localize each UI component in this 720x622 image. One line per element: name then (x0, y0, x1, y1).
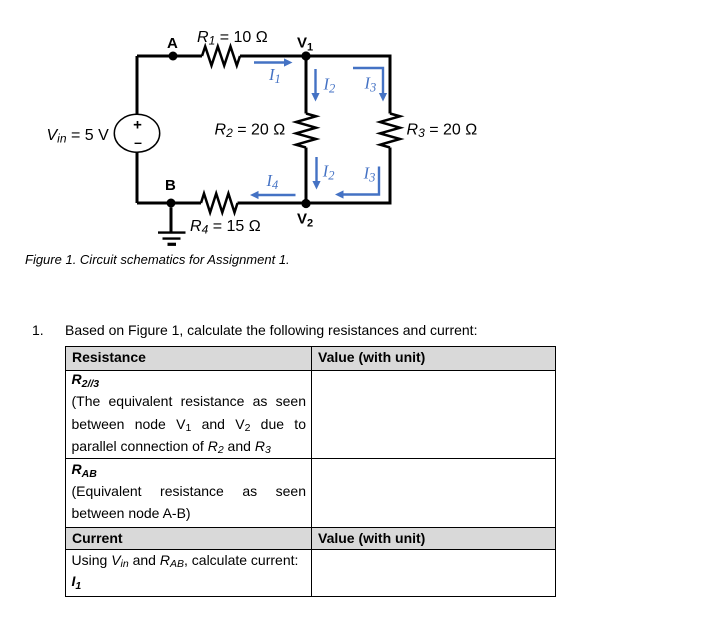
svg-text:I4: I4 (266, 171, 279, 192)
svg-text:R1 = 10 Ω: R1 = 10 Ω (197, 29, 268, 48)
svg-text:I1: I1 (268, 65, 281, 86)
svg-text:R3 = 20 Ω: R3 = 20 Ω (407, 121, 478, 140)
svg-text:R2 = 20 Ω: R2 = 20 Ω (215, 121, 286, 140)
svg-text:R4 = 15 Ω: R4 = 15 Ω (190, 218, 261, 237)
svg-text:A: A (167, 35, 178, 52)
svg-text:B: B (165, 177, 176, 194)
svg-text:I3: I3 (364, 74, 377, 95)
svg-text:I3: I3 (363, 164, 376, 185)
svg-text:I2: I2 (323, 75, 336, 96)
svg-text:V1: V1 (297, 34, 313, 53)
svg-text:I2: I2 (322, 162, 335, 183)
svg-text:V2: V2 (297, 211, 313, 230)
svg-text:–: – (134, 134, 142, 150)
svg-text:Vin = 5 V: Vin = 5 V (47, 127, 110, 146)
svg-text:+: + (133, 116, 142, 133)
